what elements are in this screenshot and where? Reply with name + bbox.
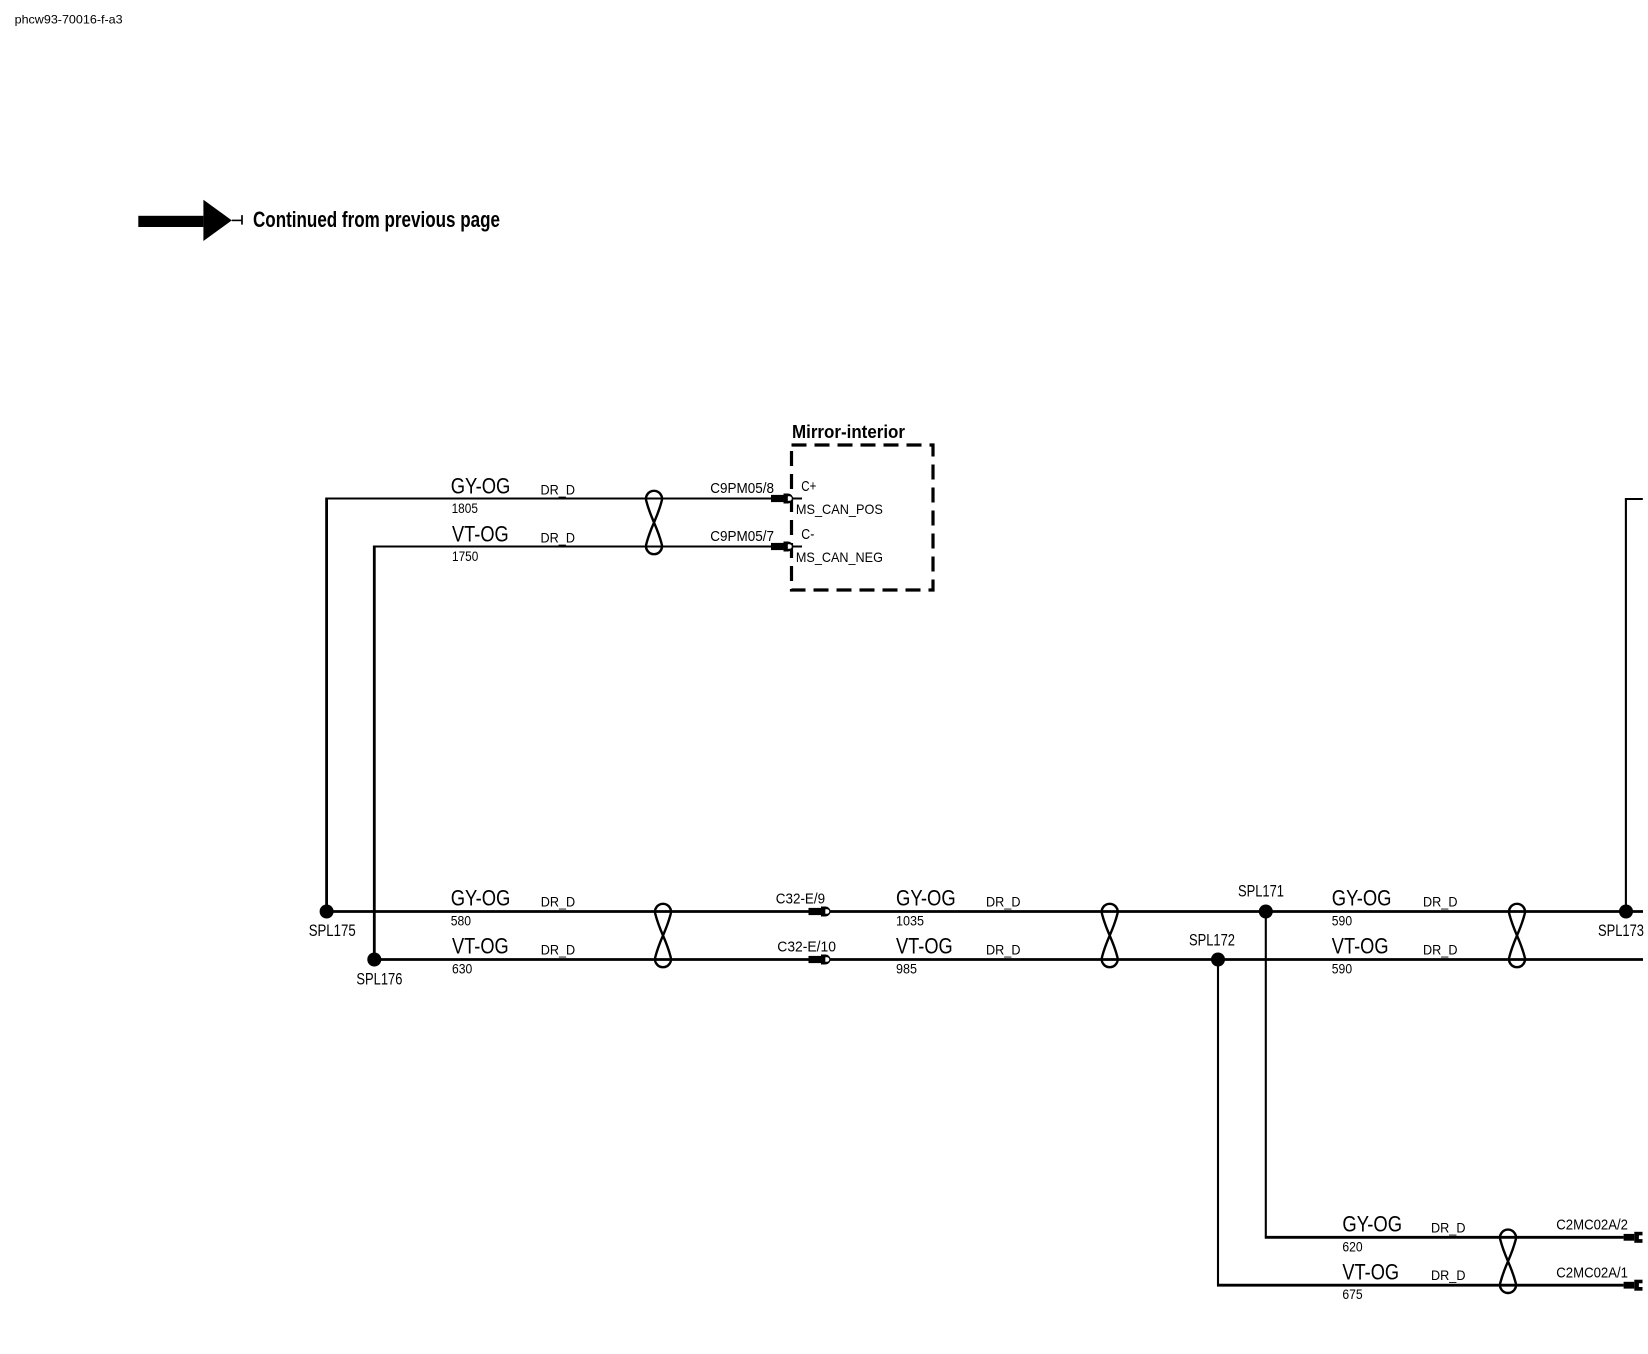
splice SPL175 <box>320 905 334 919</box>
svg-text:620: 620 <box>1342 1239 1363 1254</box>
svg-text:C9PM05/7: C9PM05/7 <box>710 528 774 545</box>
svg-text:VT-OG: VT-OG <box>452 521 509 546</box>
svg-text:630: 630 <box>452 961 473 976</box>
svg-text:SPL171: SPL171 <box>1238 883 1284 901</box>
wire stub into Mirror-interior pin 7 <box>790 546 802 548</box>
svg-text:GY-OG: GY-OG <box>451 886 511 911</box>
svg-text:VT-OG: VT-OG <box>896 934 953 959</box>
twisted-pair symbol TP4 <box>1509 904 1525 967</box>
svg-text:GY-OG: GY-OG <box>1332 886 1392 911</box>
wire VT-OG 675 (row F horizontal) <box>1217 1284 1624 1287</box>
connector pin C9PM05/8 <box>771 494 793 504</box>
wire GY-OG bus (row C) left of pin <box>327 910 809 913</box>
svg-text:DR_D: DR_D <box>1423 894 1458 909</box>
svg-text:MS_CAN_POS: MS_CAN_POS <box>796 501 883 517</box>
svg-text:SPL176: SPL176 <box>356 971 402 989</box>
wire VT-OG 1750 (row B horizontal) <box>374 546 771 548</box>
svg-text:C32-E/9: C32-E/9 <box>776 890 825 907</box>
svg-text:985: 985 <box>896 961 917 976</box>
wire GY-OG 1805 (row A horizontal) <box>327 498 771 500</box>
svg-text:Mirror-interior: Mirror-interior <box>792 422 906 443</box>
svg-text:590: 590 <box>1332 913 1353 928</box>
svg-text:DR_D: DR_D <box>541 942 576 957</box>
svg-text:DR_D: DR_D <box>1431 1268 1466 1283</box>
svg-text:DR_D: DR_D <box>1423 942 1458 957</box>
wire from SPL173 up and off page right <box>1626 499 1643 912</box>
svg-text:675: 675 <box>1342 1287 1363 1302</box>
wire stub into Mirror-interior pin 8 <box>790 498 802 500</box>
wire vertical V1 GY-OG down to SPL175 <box>325 498 328 912</box>
svg-text:DR_D: DR_D <box>986 942 1021 957</box>
twisted-pair symbol TP5 <box>1500 1230 1516 1293</box>
twisted-pair symbol TP2 <box>655 904 671 967</box>
component Mirror-interior dashed box <box>792 445 934 590</box>
svg-text:C-: C- <box>801 526 814 543</box>
connector pin C32-E/10 <box>809 955 831 965</box>
continued-from-previous-page arrow <box>138 200 242 241</box>
svg-text:DR_D: DR_D <box>541 894 576 909</box>
svg-text:590: 590 <box>1332 961 1353 976</box>
svg-text:C32-E/10: C32-E/10 <box>777 938 836 955</box>
svg-text:580: 580 <box>451 913 472 928</box>
splice SPL173 <box>1619 905 1633 919</box>
svg-text:GY-OG: GY-OG <box>896 886 956 911</box>
svg-text:1750: 1750 <box>452 549 479 564</box>
wire GY-OG 620 (row E horizontal) <box>1265 1236 1624 1239</box>
svg-text:VT-OG: VT-OG <box>1342 1260 1399 1285</box>
svg-text:phcw93-70016-f-a3: phcw93-70016-f-a3 <box>15 14 123 27</box>
svg-text:SPL175: SPL175 <box>309 922 356 940</box>
wire VT-OG bus (row D) left of pin <box>374 958 808 961</box>
svg-text:DR_D: DR_D <box>541 531 576 546</box>
svg-text:VT-OG: VT-OG <box>1332 934 1389 959</box>
svg-text:SPL172: SPL172 <box>1189 932 1235 950</box>
svg-text:GY-OG: GY-OG <box>451 473 511 498</box>
wire VT-OG bus (row D) right of pin <box>830 958 1643 961</box>
svg-text:C2MC02A/1: C2MC02A/1 <box>1556 1264 1628 1281</box>
wire vertical V3 from SPL171 down <box>1265 912 1267 1237</box>
svg-text:1035: 1035 <box>896 913 924 928</box>
connector pin C9PM05/7 <box>771 542 793 552</box>
splice SPL172 <box>1211 953 1225 967</box>
connector pin C2MC02A/1 <box>1624 1280 1643 1291</box>
svg-text:SPL173: SPL173 <box>1598 922 1644 940</box>
wire vertical V2 VT-OG down to SPL176 <box>373 546 376 960</box>
connector pin C2MC02A/2 <box>1624 1232 1643 1243</box>
svg-text:Continued from previous page: Continued from previous page <box>253 207 500 232</box>
svg-text:VT-OG: VT-OG <box>452 934 509 959</box>
splice SPL171 <box>1259 905 1273 919</box>
svg-text:DR_D: DR_D <box>1431 1220 1466 1235</box>
splice SPL176 <box>367 953 381 967</box>
connector pin C32-E/9 <box>809 907 831 917</box>
svg-text:C2MC02A/2: C2MC02A/2 <box>1556 1217 1628 1234</box>
twisted-pair symbol TP3 <box>1102 904 1118 967</box>
svg-text:C9PM05/8: C9PM05/8 <box>710 480 774 497</box>
svg-text:DR_D: DR_D <box>986 894 1021 909</box>
svg-text:GY-OG: GY-OG <box>1342 1212 1402 1237</box>
svg-text:MS_CAN_NEG: MS_CAN_NEG <box>796 549 883 565</box>
svg-text:1805: 1805 <box>452 501 479 516</box>
twisted-pair symbol TP1 <box>646 491 662 554</box>
wire vertical V4 from SPL172 down <box>1217 960 1219 1285</box>
svg-text:DR_D: DR_D <box>541 483 576 498</box>
wire GY-OG bus (row C) right of pin <box>830 910 1643 913</box>
svg-text:C+: C+ <box>801 478 816 495</box>
